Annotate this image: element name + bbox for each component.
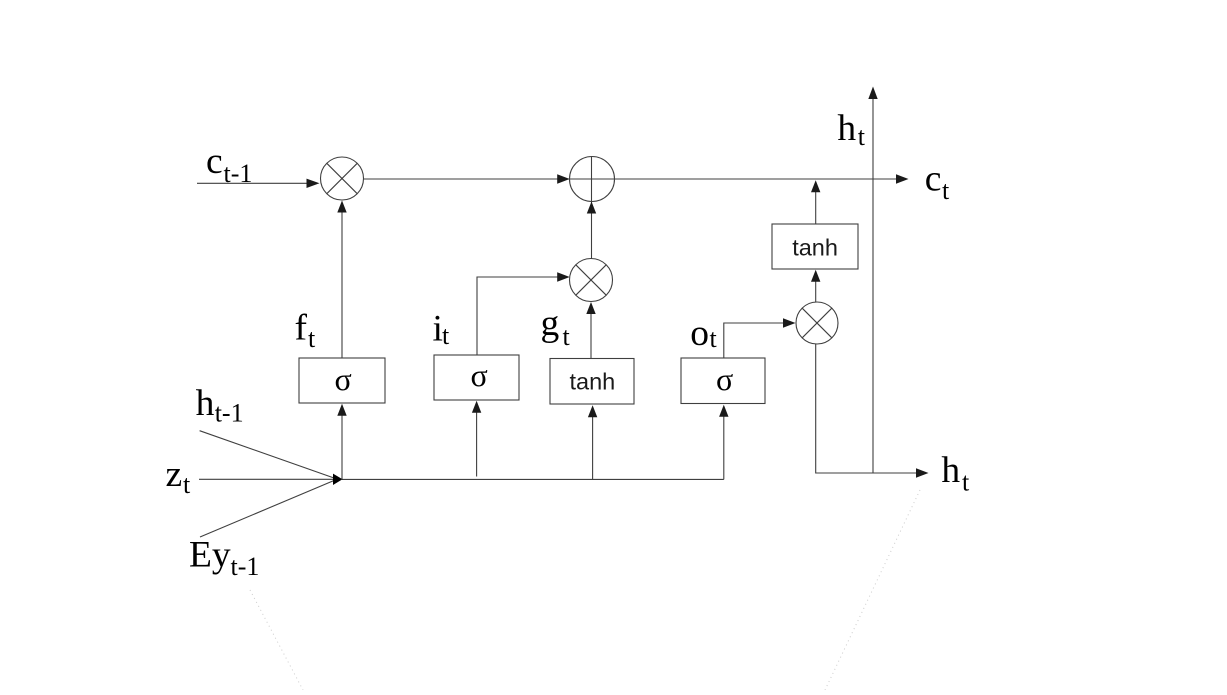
label h(t) top — [837, 108, 865, 151]
svg-text:σ: σ — [335, 361, 352, 397]
svg-text:g: g — [541, 303, 560, 344]
wire Ey(t-1) diagonal into junction — [200, 481, 334, 538]
svg-text:t: t — [308, 324, 316, 353]
svg-text:t-1: t-1 — [231, 552, 260, 581]
wire tall vertical h(t) up arrow — [868, 87, 877, 474]
label h(t) right — [941, 450, 970, 496]
label tanh g-gate — [570, 369, 616, 395]
dotted zoom line left — [250, 590, 303, 690]
wire riser to o-gate — [719, 405, 728, 480]
wire riser to i-gate — [472, 401, 481, 477]
svg-text:Ey: Ey — [189, 534, 231, 575]
svg-text:t: t — [858, 122, 866, 151]
box g-gate tanh — [550, 359, 634, 405]
label sigma f-gate — [335, 361, 352, 397]
box tanh output — [772, 224, 858, 269]
svg-text:t: t — [563, 322, 571, 351]
wire c(t-1) input — [197, 179, 320, 188]
box i-gate sigma — [434, 355, 519, 400]
svg-text:c: c — [925, 159, 942, 200]
label f(t) — [295, 307, 317, 353]
wire i-gate elbow to multiply2 — [477, 272, 570, 355]
box o-gate sigma — [681, 358, 765, 404]
label tanh output box — [792, 234, 838, 260]
svg-text:t: t — [710, 324, 718, 353]
svg-text:o: o — [690, 313, 709, 354]
wire riser to g-gate — [588, 405, 597, 479]
wire tanh1 up to multiply2 — [586, 302, 595, 359]
wire h(t-1) diagonal into junction — [200, 431, 334, 478]
label g(t) — [541, 303, 571, 351]
label h(t-1) — [196, 383, 244, 427]
svg-text:h: h — [837, 108, 856, 149]
svg-text:t: t — [442, 321, 450, 350]
svg-text:t-1: t-1 — [215, 398, 244, 427]
wire z(t) horizontal into junction — [199, 478, 334, 480]
wire tanh box up to cell line — [811, 180, 820, 224]
wire multiply3 down and right to h(t) — [816, 344, 929, 478]
wire multiply2 up to add — [587, 157, 596, 259]
node multiply1 circle — [321, 157, 364, 200]
label sigma o-gate — [716, 361, 733, 397]
svg-text:t-1: t-1 — [224, 159, 253, 188]
label sigma i-gate — [471, 357, 488, 393]
wire multiply3 up to tanh box — [811, 270, 820, 302]
svg-text:tanh: tanh — [792, 234, 838, 260]
svg-text:c: c — [206, 141, 223, 182]
svg-text:f: f — [295, 307, 308, 348]
wire riser to f-gate — [337, 404, 346, 480]
box f-gate sigma — [299, 358, 385, 403]
svg-text:t: t — [962, 468, 970, 497]
svg-text:t: t — [942, 176, 950, 205]
dotted zoom line right — [825, 490, 920, 690]
node multiply3 circle — [796, 302, 838, 344]
wire bottom input bus — [342, 478, 724, 480]
svg-text:σ: σ — [716, 361, 733, 397]
wire o-gate elbow to multiply3 — [724, 318, 796, 358]
wire cell-state horizontal line to c(t) — [364, 174, 909, 183]
node multiply2 circle — [570, 259, 613, 302]
svg-text:z: z — [166, 454, 183, 495]
svg-text:σ: σ — [471, 357, 488, 393]
svg-text:t: t — [183, 470, 191, 499]
svg-text:h: h — [196, 383, 215, 424]
label c(t-1) — [206, 141, 252, 188]
label z(t) — [166, 454, 192, 499]
label o(t) — [690, 313, 717, 354]
label i(t) — [433, 309, 451, 351]
node add circle — [570, 157, 615, 202]
svg-text:h: h — [941, 450, 960, 491]
label Ey(t-1) — [189, 534, 259, 581]
label c(t) — [925, 159, 950, 206]
svg-text:tanh: tanh — [570, 369, 616, 395]
node junction arrow — [333, 474, 343, 485]
wire f-gate box up to multiply1 — [337, 201, 346, 359]
